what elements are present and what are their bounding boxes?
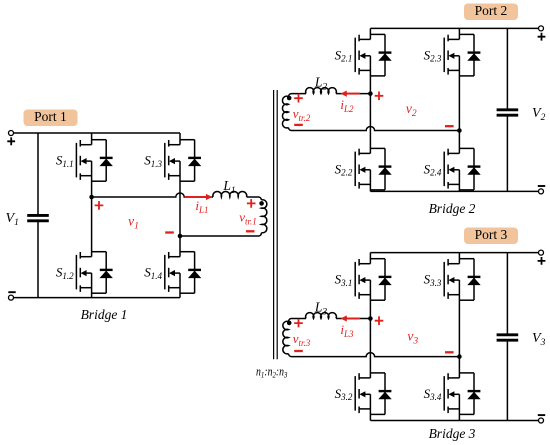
wire: L3 to winding 3 top bbox=[289, 319, 307, 322]
current arrow iL3 bbox=[347, 318, 360, 320]
wire: capacitor C2 branch lower bbox=[506, 115, 508, 191]
junction node: bridge 1 right midpoint bbox=[178, 234, 183, 239]
wire: port 1 bottom rail bbox=[14, 297, 180, 299]
svg-text:Port 2: Port 2 bbox=[475, 3, 508, 18]
body diode of S2.3 bbox=[459, 34, 480, 76]
transformer winding 3 bbox=[283, 321, 289, 354]
label: port 3 + bbox=[538, 257, 546, 265]
wire: winding 3 bottom with hop over left leg bbox=[289, 353, 460, 357]
label: port 2 - bbox=[538, 185, 545, 187]
transistor S1.2 bbox=[76, 252, 91, 292]
transformer winding 2 bbox=[282, 96, 288, 128]
wire: capacitor C2 branch upper bbox=[506, 28, 508, 109]
wire: capacitor C1 branch upper bbox=[37, 133, 39, 215]
label vtr.2 plus bbox=[294, 94, 303, 103]
junction node: bridge 2 left midpoint bbox=[368, 91, 373, 96]
body diode of S1.2 bbox=[92, 252, 113, 294]
wire: bridge 3 left midpoint to L3 bbox=[336, 318, 370, 320]
current arrow iL1 bbox=[185, 196, 207, 198]
wire: bridge 2 left midpoint to L2 bbox=[336, 93, 370, 95]
terminal: port 3 positive bbox=[539, 250, 544, 255]
Port 3 label bbox=[464, 228, 518, 245]
junction node: bridge 1 left midpoint bbox=[89, 195, 94, 200]
polarity dot winding 3 bbox=[287, 321, 292, 326]
wire: winding 2 bottom with hop over left leg bbox=[289, 127, 460, 131]
wire: port 3 bottom rail bbox=[370, 420, 541, 422]
label: port 2 + bbox=[538, 33, 546, 41]
transistor S2.1 bbox=[355, 35, 370, 75]
inductor L3 bbox=[306, 313, 337, 319]
body diode of S3.1 bbox=[370, 259, 391, 301]
body diode of S1.3 bbox=[180, 140, 201, 182]
transistor S3.2 bbox=[355, 373, 370, 413]
body diode of S1.1 bbox=[92, 140, 113, 182]
body diode of S2.4 bbox=[459, 148, 480, 190]
wire: bridge 1 left leg bbox=[91, 133, 93, 298]
transistor S2.4 bbox=[444, 149, 459, 189]
label v1 minus bbox=[165, 231, 174, 233]
transistor S2.3 bbox=[444, 35, 459, 75]
wire: bridge 2 right leg bbox=[458, 28, 460, 191]
terminal: port 3 negative bbox=[539, 418, 544, 423]
label v2 plus bbox=[375, 92, 384, 101]
label vtr.2 minus bbox=[294, 124, 303, 126]
wire: bridge 1 midpoint to L1 with hop over right leg bbox=[92, 193, 213, 197]
body diode of S3.2 bbox=[370, 373, 391, 415]
inductor L2 bbox=[306, 88, 337, 94]
transistor S3.4 bbox=[444, 373, 459, 413]
junction node: bridge 3 right midpoint bbox=[457, 354, 462, 359]
body diode of S3.3 bbox=[459, 259, 480, 301]
svg-text:Bridge 2: Bridge 2 bbox=[429, 201, 476, 216]
svg-text:n1:n2:n3: n1:n2:n3 bbox=[256, 365, 288, 380]
transformer core bbox=[274, 90, 278, 359]
wire: bridge 1 right leg bbox=[179, 133, 181, 298]
svg-text:Port 1: Port 1 bbox=[34, 109, 67, 124]
wire: capacitor C1 branch lower bbox=[37, 221, 39, 298]
wire: capacitor C3 branch lower bbox=[506, 340, 508, 420]
label: port 1 + bbox=[7, 137, 15, 145]
body diode of S1.4 bbox=[180, 252, 201, 294]
transistor S3.1 bbox=[355, 259, 370, 299]
wire: L1 to winding 1 top bbox=[247, 197, 262, 200]
body diode of S3.4 bbox=[459, 373, 480, 415]
terminal: port 2 negative bbox=[539, 189, 544, 194]
polarity dot winding 1 bbox=[259, 201, 264, 206]
Port 1 label bbox=[24, 110, 78, 127]
label vtr.1 plus bbox=[247, 199, 256, 208]
label vtr.3 plus bbox=[294, 319, 303, 328]
terminal: port 2 positive bbox=[539, 26, 544, 31]
body diode of S2.1 bbox=[370, 34, 391, 76]
Port 2 label bbox=[464, 4, 518, 21]
label v2 minus bbox=[445, 125, 454, 127]
svg-text:Bridge 1: Bridge 1 bbox=[81, 307, 128, 322]
wire: bridge 3 right leg bbox=[458, 253, 460, 421]
transistor S3.3 bbox=[444, 259, 459, 299]
terminal: port 1 positive bbox=[9, 131, 14, 136]
wire: winding 1 bottom return bbox=[180, 233, 261, 236]
label v3 minus bbox=[445, 351, 454, 353]
capacitor C2 bbox=[497, 108, 519, 111]
wire: port 2 top rail bbox=[370, 27, 541, 29]
wire: port 3 top rail bbox=[370, 252, 541, 254]
label: port 3 - bbox=[538, 414, 545, 416]
transistor S2.2 bbox=[355, 149, 370, 189]
svg-text:Port 3: Port 3 bbox=[475, 227, 508, 242]
transistor S1.3 bbox=[165, 140, 180, 180]
label v1 plus bbox=[95, 201, 104, 210]
transformer winding 1 bbox=[261, 200, 266, 233]
transistor S1.4 bbox=[165, 252, 180, 292]
wire: bridge 3 left leg bbox=[369, 253, 371, 421]
label vtr.1 minus bbox=[246, 230, 255, 232]
label: port 1 - bbox=[8, 291, 15, 293]
transistor S1.1 bbox=[76, 140, 91, 180]
inductor L1 bbox=[213, 192, 247, 197]
current arrow iL2 bbox=[347, 93, 360, 95]
polarity dot winding 2 bbox=[287, 96, 292, 101]
body diode of S2.2 bbox=[370, 148, 391, 190]
svg-text:Bridge 3: Bridge 3 bbox=[429, 426, 476, 441]
junction node: bridge 3 left midpoint bbox=[368, 316, 373, 321]
capacitor C3 bbox=[497, 333, 519, 336]
wire: capacitor C3 branch upper bbox=[506, 253, 508, 335]
junction node: bridge 2 right midpoint bbox=[457, 128, 462, 133]
terminal: port 1 negative bbox=[9, 295, 14, 300]
wire: L2 to winding 2 top bbox=[289, 94, 307, 97]
wire: port 2 bottom rail bbox=[370, 190, 541, 192]
wire: port 1 top rail bbox=[14, 132, 180, 134]
label vtr.3 minus bbox=[294, 350, 303, 352]
wire: bridge 2 left leg bbox=[369, 28, 371, 191]
capacitor C1 bbox=[27, 214, 49, 217]
label v3 plus bbox=[375, 316, 384, 325]
